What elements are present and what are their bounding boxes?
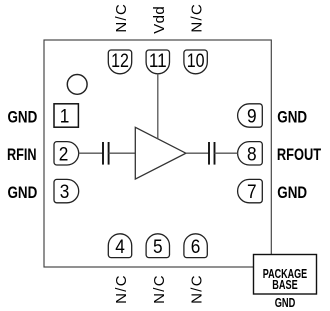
pin 5 (N/C) <box>146 234 169 258</box>
pin 3 (GND) <box>54 179 79 203</box>
capacitor C1 (input DC block) <box>103 142 109 165</box>
label PACKAGE BASE <box>263 266 308 292</box>
wire Vdd: pin 11 to amplifier <box>157 74 159 139</box>
svg-text:GND: GND <box>277 184 307 202</box>
package outline <box>44 40 271 267</box>
amplifier U1 <box>135 127 186 179</box>
svg-text:N/C: N/C <box>151 275 168 304</box>
svg-text:3: 3 <box>60 182 70 203</box>
svg-text:7: 7 <box>247 182 257 203</box>
svg-text:N/C: N/C <box>113 275 130 304</box>
svg-text:BASE: BASE <box>272 277 298 292</box>
pin 10 (N/C) <box>184 50 207 74</box>
svg-text:GND: GND <box>8 184 38 202</box>
package base paddle box <box>254 255 317 295</box>
svg-text:N/C: N/C <box>189 275 206 304</box>
svg-text:1: 1 <box>60 107 70 128</box>
svg-text:9: 9 <box>247 107 257 128</box>
wire C1 to amplifier input <box>109 152 136 154</box>
svg-text:8: 8 <box>247 145 257 166</box>
capacitor C2 (output DC block) <box>209 142 215 165</box>
pin 2 (RFIN) <box>54 142 79 166</box>
wire RFIN: pin 2 to capacitor C1 <box>79 152 103 154</box>
svg-text:GND: GND <box>8 108 38 126</box>
svg-text:4: 4 <box>115 237 125 258</box>
pin 1 (GND) <box>54 104 78 128</box>
svg-text:N/C: N/C <box>189 4 206 33</box>
pin 9 (GND) <box>238 104 263 128</box>
svg-text:GND: GND <box>275 295 296 310</box>
svg-text:5: 5 <box>153 237 163 258</box>
svg-text:2: 2 <box>59 145 69 166</box>
svg-text:10: 10 <box>187 51 205 72</box>
svg-text:RFOUT: RFOUT <box>277 146 321 164</box>
svg-text:GND: GND <box>277 108 307 126</box>
pin 7 (GND) <box>238 179 263 203</box>
svg-text:Vdd: Vdd <box>151 6 168 34</box>
svg-text:N/C: N/C <box>113 4 130 33</box>
svg-text:RFIN: RFIN <box>7 146 37 164</box>
svg-text:11: 11 <box>149 51 167 72</box>
wire amplifier output to C2 <box>186 152 209 154</box>
pin 12 (N/C) <box>108 50 131 74</box>
pin 8 (RFOUT) <box>238 142 263 166</box>
pin 6 (N/C) <box>184 234 207 258</box>
pin 4 (N/C) <box>108 234 131 258</box>
wire C2 to pin 8 <box>215 152 238 154</box>
pin 1 indicator dot <box>67 75 87 95</box>
svg-text:12: 12 <box>111 51 129 72</box>
svg-text:6: 6 <box>191 237 201 258</box>
pin 11 (Vdd) <box>146 50 169 74</box>
